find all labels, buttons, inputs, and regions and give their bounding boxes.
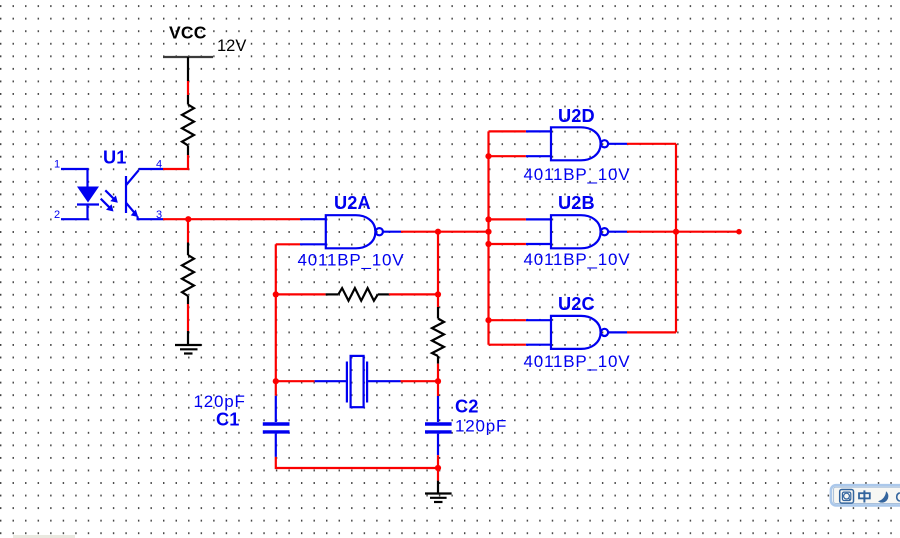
svg-text:VCC: VCC xyxy=(169,23,207,43)
resistor damping (vertical) xyxy=(432,307,444,364)
wire right bus vertical xyxy=(675,144,677,333)
svg-text:U2D: U2D xyxy=(558,106,595,126)
IME icon Q logo xyxy=(840,490,854,504)
svg-text:4011BP_10V: 4011BP_10V xyxy=(524,352,631,371)
IME icon partial xyxy=(897,493,900,501)
wire input bus vertical xyxy=(487,131,489,344)
junction bus U2B-B xyxy=(485,241,491,247)
wire output stub xyxy=(676,231,739,233)
ground G2 xyxy=(425,481,452,502)
power symbol VCC xyxy=(163,57,213,81)
resistor R3 xyxy=(182,243,194,305)
wire crystal row right xyxy=(401,380,439,382)
wire C2 to bottom junction xyxy=(437,455,439,468)
svg-text:4011BP_10V: 4011BP_10V xyxy=(524,165,631,184)
IME icon zhong xyxy=(859,490,870,502)
wire bottom junction to ground xyxy=(437,468,439,481)
wire R3 to ground xyxy=(187,304,189,331)
junction left loop R row xyxy=(273,291,279,297)
wire right loop vertical mid xyxy=(437,364,439,396)
junction bus U2D-B xyxy=(485,153,491,159)
junction right loop R row xyxy=(435,291,441,297)
svg-text:12V: 12V xyxy=(217,37,246,55)
junction U2A output xyxy=(435,229,441,235)
NAND gate U2B xyxy=(526,215,627,248)
junction bus U2C-A xyxy=(485,317,491,323)
svg-text:1: 1 xyxy=(54,159,60,171)
svg-text:U2C: U2C xyxy=(558,294,595,314)
wire R row right xyxy=(389,293,438,295)
wire pin3 to node xyxy=(163,218,188,220)
capacitor C1 xyxy=(263,396,290,457)
wire U2C output to right bus xyxy=(627,331,676,333)
resistor feedback (horizontal) xyxy=(326,288,389,301)
wire bus to U2D inputs xyxy=(489,131,526,156)
wire U2D output to right bus xyxy=(627,143,676,145)
svg-text:C1: C1 xyxy=(216,410,239,430)
wire node to U2A input A xyxy=(188,218,300,220)
svg-text:4011BP_10V: 4011BP_10V xyxy=(524,250,631,269)
svg-text:U1: U1 xyxy=(103,148,126,168)
wire VCC to R1 xyxy=(187,81,189,95)
IME icon moon xyxy=(878,491,888,502)
wire node down to R3 xyxy=(187,219,189,242)
wire crystal row left xyxy=(276,380,315,382)
svg-text:U2A: U2A xyxy=(334,193,371,213)
capacitor C2 xyxy=(425,396,452,455)
NAND gate U2C xyxy=(526,316,627,349)
NAND gate U2A xyxy=(300,215,401,248)
junction bus main xyxy=(485,229,491,235)
crystal X1 xyxy=(315,356,401,407)
junction bus U2B-A xyxy=(485,216,491,222)
terminal dot output xyxy=(736,229,742,235)
junction bottom xyxy=(435,465,441,471)
svg-text:3: 3 xyxy=(156,209,162,221)
NAND gate U2D xyxy=(526,127,627,160)
junction left loop crystal row xyxy=(273,378,279,384)
ground G1 xyxy=(175,331,202,354)
wire bus to U2C inputs xyxy=(489,320,526,345)
svg-text:120pF: 120pF xyxy=(194,392,246,411)
svg-text:2: 2 xyxy=(54,209,60,221)
resistor R1 xyxy=(182,95,194,155)
svg-text:C2: C2 xyxy=(455,397,478,417)
wire U2A output to node xyxy=(401,231,438,233)
scrollbar fragment bottom-left xyxy=(13,535,75,538)
wire C1 to bottom xyxy=(276,457,438,468)
svg-text:4011BP_10V: 4011BP_10V xyxy=(298,251,405,270)
wire right loop vertical top xyxy=(437,232,439,307)
wire R row left xyxy=(276,293,326,295)
wire U2B output to right xyxy=(627,231,676,233)
wire left loop vertical xyxy=(275,244,277,395)
wire bus to U2B inputs xyxy=(489,219,526,244)
junction crystal row right xyxy=(435,378,441,384)
svg-text:120pF: 120pF xyxy=(455,417,507,436)
wire R1 to U1 pin4 xyxy=(163,155,188,169)
junction right bus xyxy=(673,229,679,235)
wire U2A bottom input from left loop xyxy=(276,243,300,245)
optocoupler U1 xyxy=(61,169,163,219)
svg-text:4: 4 xyxy=(156,158,162,170)
wire main to input bus xyxy=(438,231,489,233)
node A: U1 pin3 junction xyxy=(185,216,191,222)
svg-text:U2B: U2B xyxy=(558,193,595,213)
IME toolbar xyxy=(831,485,900,505)
